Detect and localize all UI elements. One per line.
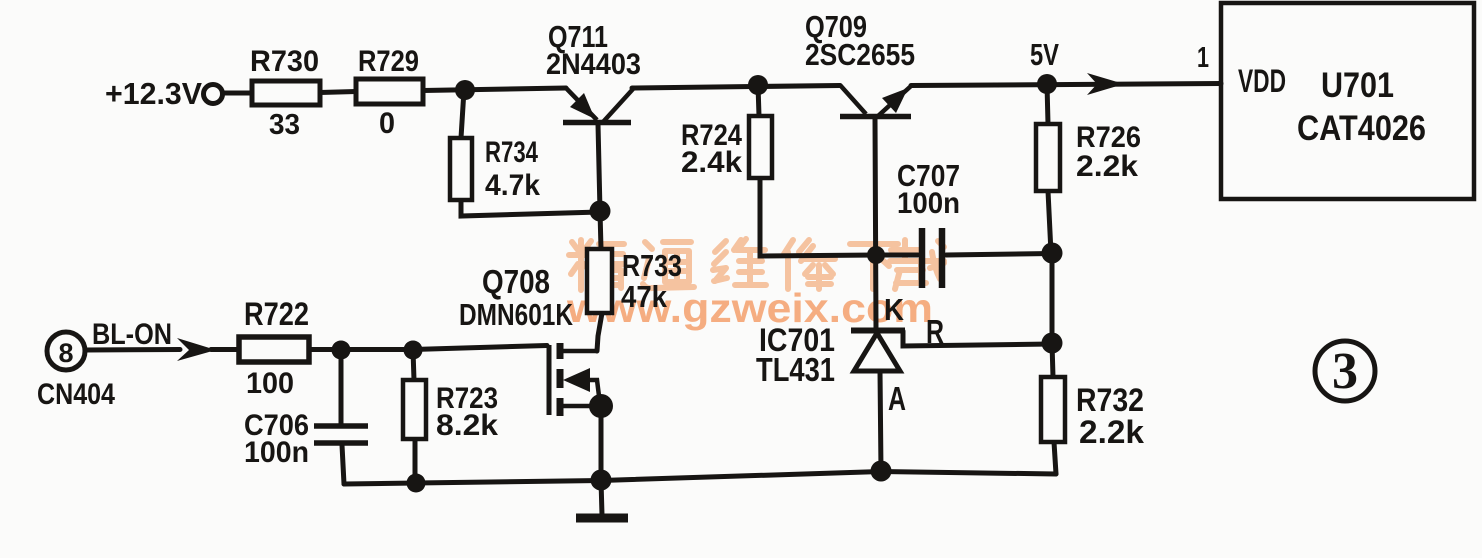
svg-text:TL431: TL431 [756,351,835,388]
svg-text:U701: U701 [1321,66,1394,105]
svg-text:5V: 5V [1030,37,1059,72]
svg-text:47k: 47k [621,279,668,314]
svg-text:R722: R722 [244,296,309,332]
svg-text:2.2k: 2.2k [1076,150,1138,183]
svg-text:2SC2655: 2SC2655 [805,37,915,72]
svg-text:100n: 100n [244,436,309,469]
svg-text:VDD: VDD [1238,63,1286,99]
svg-text:R732: R732 [1076,382,1144,418]
svg-text:CAT4026: CAT4026 [1297,109,1426,148]
svg-text:R: R [926,313,944,350]
svg-text:8.2k: 8.2k [436,409,498,442]
svg-text:Q708: Q708 [482,263,550,300]
svg-text:BL-ON: BL-ON [92,318,172,351]
svg-text:R730: R730 [250,45,319,78]
svg-text:A: A [888,380,906,417]
svg-text:1: 1 [1197,42,1209,74]
svg-text:0: 0 [379,107,395,140]
svg-text:R729: R729 [358,45,419,78]
svg-text:2.2k: 2.2k [1079,414,1144,450]
svg-text:4.7k: 4.7k [485,169,540,202]
svg-text:R734: R734 [485,136,538,169]
svg-text:2N4403: 2N4403 [546,48,641,81]
svg-text:CN404: CN404 [37,378,115,411]
svg-text:3: 3 [1332,343,1358,400]
svg-text:DMN601K: DMN601K [459,297,573,332]
svg-text:100n: 100n [897,187,960,220]
svg-text:8: 8 [58,338,73,368]
svg-text:R733: R733 [622,248,682,283]
svg-text:K: K [884,292,905,327]
svg-text:33: 33 [269,109,300,141]
svg-text:+12.3V: +12.3V [105,76,202,111]
svg-text:2.4k: 2.4k [681,146,742,179]
svg-text:100: 100 [246,367,294,400]
